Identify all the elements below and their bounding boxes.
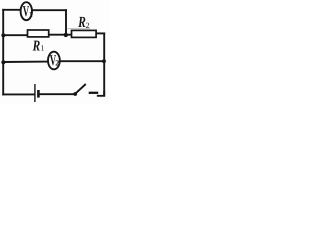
scan streak under R2 label — [67, 28, 90, 30]
wire: junction to R2 — [66, 34, 72, 36]
battery cell: short thick negative plate — [37, 90, 40, 98]
wire: R2 to right rail — [96, 32, 104, 34]
wire: R1 to junction — [49, 34, 67, 36]
wire: top rail left segment — [3, 9, 20, 11]
battery cell: long thin positive plate — [34, 84, 36, 102]
wire: top rail right segment — [33, 9, 66, 11]
wire: V2 row, meter to right rail — [60, 60, 104, 62]
wire: V2 row, left rail to meter — [3, 61, 47, 63]
wire: bottom right corner to right rail — [98, 92, 104, 96]
wire: bottom rail left of battery — [3, 93, 34, 95]
resistor R2 (in series) — [72, 30, 97, 37]
switch lever (open) — [76, 84, 86, 93]
svg-text:2: 2 — [55, 58, 59, 67]
wire: V1 branch vertical down to R1-R2 junction — [65, 10, 67, 35]
node: right rail / V2 wire junction — [102, 59, 106, 63]
wire: right rail — [103, 33, 105, 95]
wire: battery to switch pivot — [38, 93, 74, 95]
switch fixed contact — [89, 92, 99, 94]
node: left rail / R1 wire junction — [1, 33, 5, 37]
node: junction between R1 and R2 — [64, 33, 68, 37]
svg-text:1: 1 — [29, 10, 33, 19]
node: left rail / V2 wire junction — [1, 60, 5, 64]
voltmeter V2 — [48, 52, 60, 70]
voltmeter V1 — [21, 2, 32, 20]
wire: middle row, left rail to R1 — [3, 34, 27, 36]
svg-text:R: R — [32, 38, 40, 54]
wire: left rail — [2, 10, 4, 95]
svg-text:1: 1 — [40, 44, 44, 53]
resistor R1 — [28, 30, 49, 37]
switch pivot node — [73, 92, 77, 96]
